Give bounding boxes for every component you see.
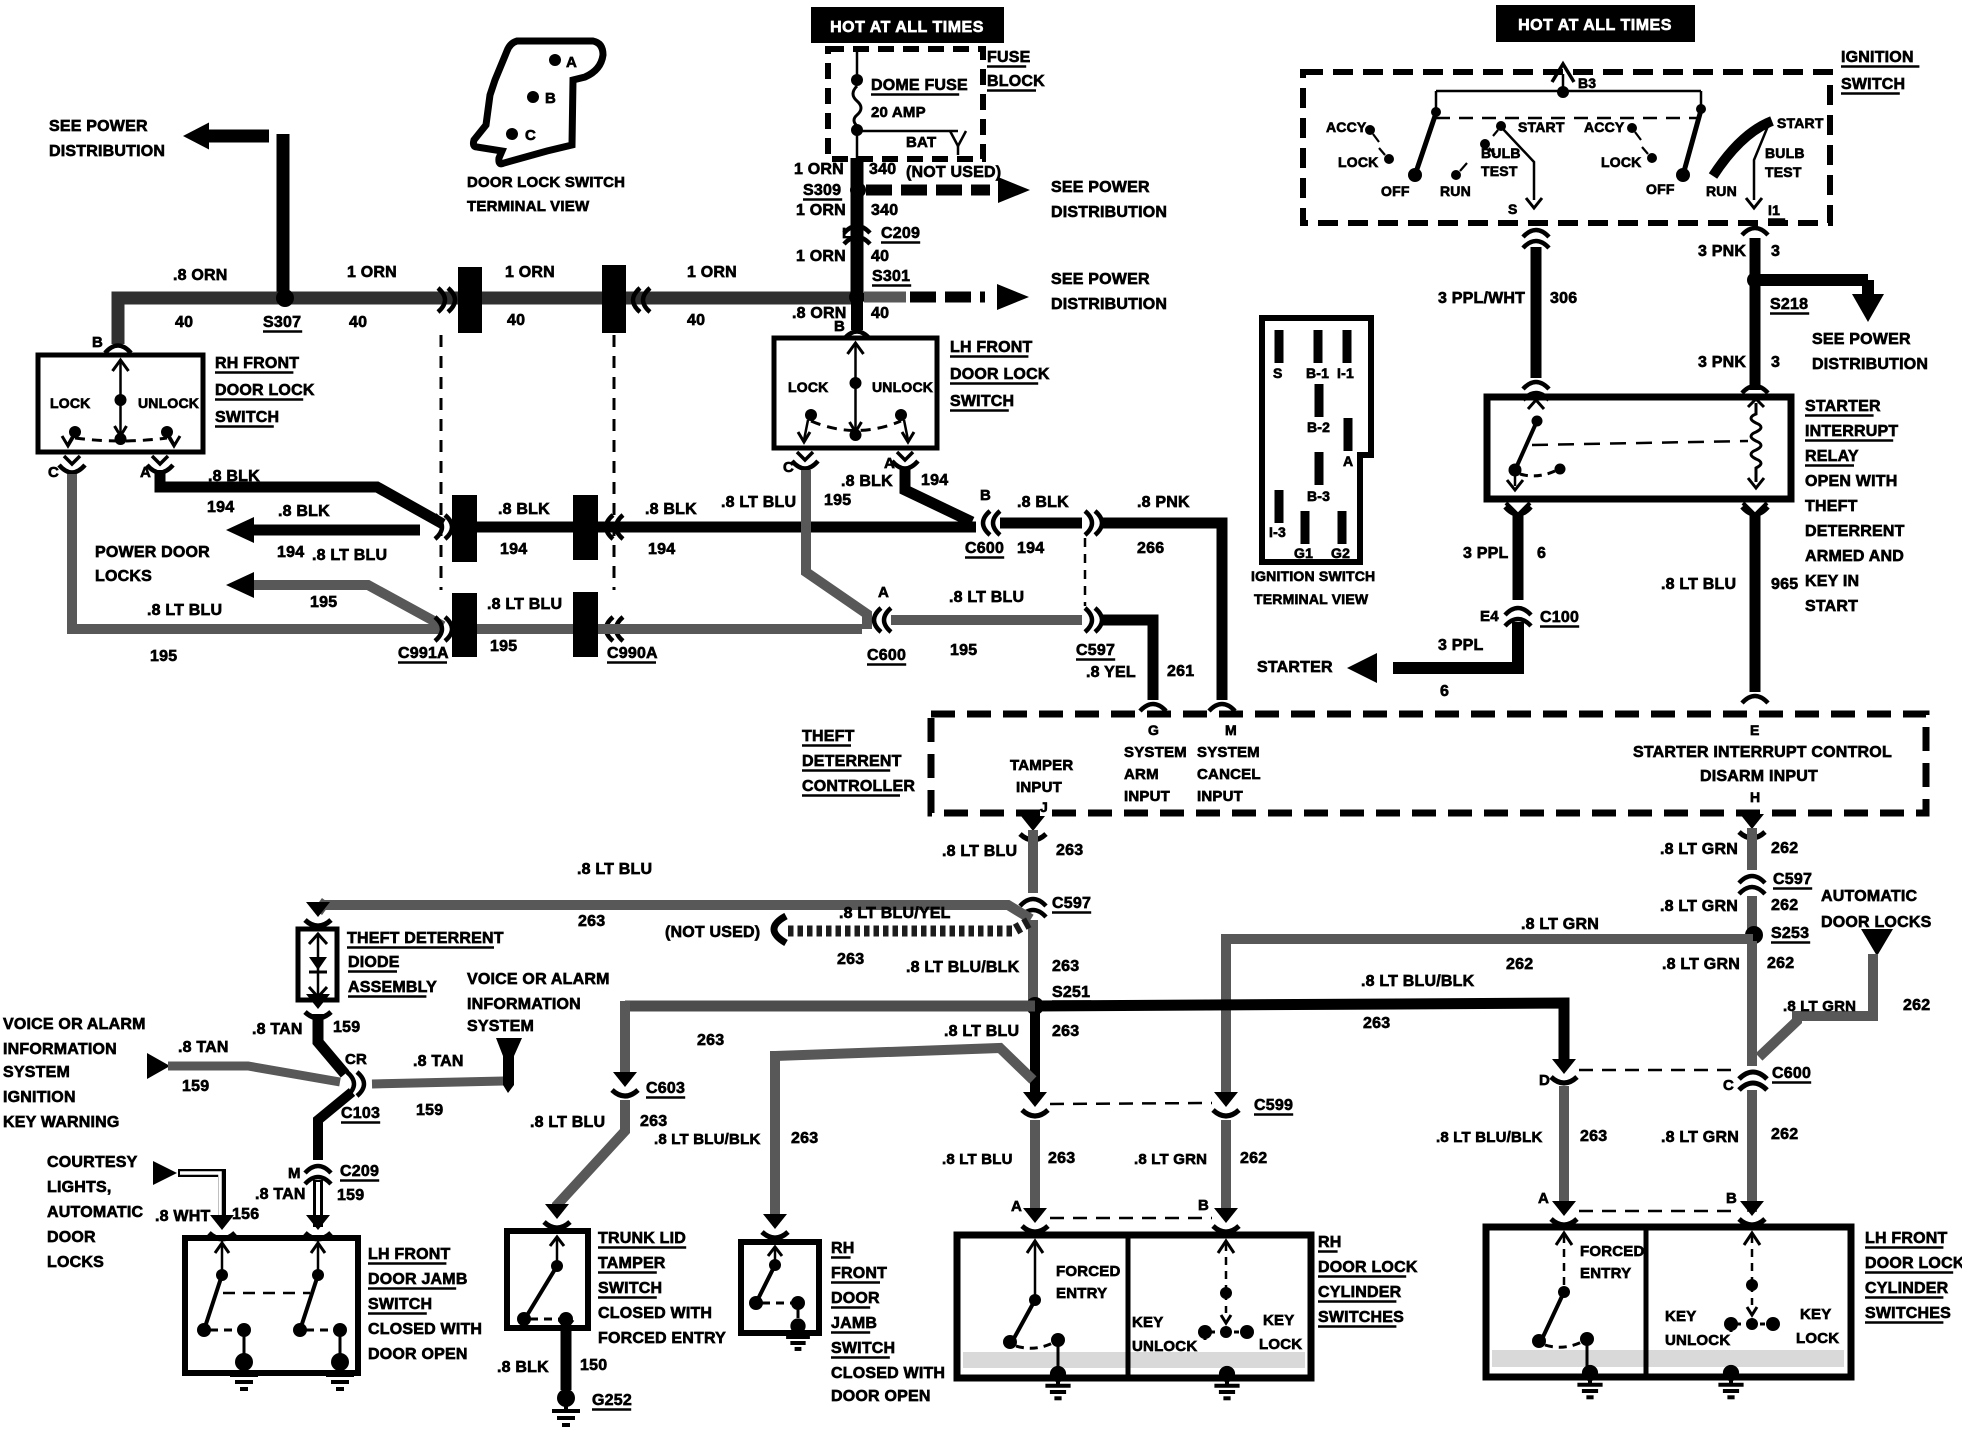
svg-text:DOOR JAMB: DOOR JAMB [368,1271,468,1288]
svg-text:DOOR LOCK: DOOR LOCK [1865,1255,1962,1272]
wire 3 PNK 3 (I1 to relay) [1750,238,1761,390]
svg-text:G2: G2 [1331,545,1350,561]
connector C209 (M) [288,1163,379,1184]
label 159 (right) [416,1102,443,1119]
HOT AT ALL TIMES banner (ignition) [1496,5,1695,42]
connector C600 pin A (.8 LT BLU) [867,584,906,665]
svg-text:194: 194 [921,472,948,489]
svg-text:.8 LT BLU: .8 LT BLU [949,589,1024,606]
svg-text:.8 LT BLU/BLK: .8 LT BLU/BLK [654,1131,760,1148]
svg-text:263: 263 [1052,1023,1079,1040]
svg-text:40: 40 [349,314,367,331]
label .8 LT GRN (branch) [1521,916,1599,933]
svg-text:.8 YEL: .8 YEL [1086,664,1136,681]
pin B connector (LH front door lock switch) [834,318,870,339]
svg-text:A: A [878,584,889,601]
pin B (LH cylinder) [1726,1190,1765,1225]
RH cylinder key lock pole [1198,1241,1254,1340]
svg-text:266: 266 [1137,540,1164,557]
label 1 ORN (right of S307) [347,264,397,281]
label .8 LT GRN (S253-C600) [1662,956,1740,973]
svg-text:3: 3 [1771,243,1780,260]
label DOOR LOCK SWITCH / TERMINAL VIEW [467,174,625,215]
label 262 (branch) [1506,956,1533,973]
svg-text:195: 195 [150,648,177,665]
svg-text:THEFT: THEFT [1805,498,1858,515]
label 40 (right of C990A) [687,312,705,329]
label 1 ORN (right of C990A) [687,264,737,281]
svg-text:40: 40 [507,312,525,329]
svg-text:JAMB: JAMB [831,1315,877,1332]
svg-text:3 PPL: 3 PPL [1438,637,1483,654]
svg-text:A: A [566,54,577,71]
splice S251 [1026,984,1091,1015]
label .8 LT GRN (C599) [1134,1151,1207,1168]
label IGNITION SWITCH TERMINAL VIEW [1251,568,1375,607]
svg-text:SWITCHES: SWITCHES [1865,1305,1951,1322]
relay starter interrupt (box) [1487,397,1791,499]
label 194 (right of C990A row2) [648,541,675,558]
svg-text:B: B [980,487,991,504]
svg-text:261: 261 [1167,663,1194,680]
wire 263 (elbow to C603) [620,1001,630,1080]
svg-text:156: 156 [232,1206,259,1223]
svg-text:B: B [1726,1190,1737,1207]
label SEE POWER DISTRIBUTION (S218) [1812,331,1928,373]
wire .8 TAN 159 (CR to voice alarm right) [372,1081,504,1084]
label 195 (below arrow) [310,594,337,611]
wire .8 WHT 156 (courtesy to LH jamb, open style) [178,1173,222,1225]
label POWER DOOR LOCKS [95,544,210,585]
svg-text:DOOR OPEN: DOOR OPEN [368,1346,468,1363]
pin D connector [1539,1059,1577,1089]
connector (ignition S) [1523,230,1549,248]
svg-text:INPUT: INPUT [1197,788,1243,805]
pin J connector (below controller) [1020,816,1046,840]
svg-text:C600: C600 [965,540,1004,557]
pin H connector (below controller) [1739,814,1765,838]
label .8 YEL [1086,664,1136,681]
svg-text:40: 40 [175,314,193,331]
label KEY UNLOCK (LH) [1665,1308,1730,1349]
label IGNITION SWITCH [1841,49,1919,94]
label .8 LT BLU (C wire) [147,602,222,619]
svg-text:LOCKS: LOCKS [47,1254,104,1271]
svg-text:SEE POWER: SEE POWER [1051,271,1150,288]
svg-text:263: 263 [791,1130,818,1147]
door lock switch terminal view outline [473,41,603,164]
label G SYSTEM ARM INPUT [1124,722,1187,805]
theft deterrent controller dashed box [931,714,1926,813]
label 195 (between blocks row3) [490,638,517,655]
svg-text:VOICE OR ALARM: VOICE OR ALARM [3,1016,146,1033]
label COURTESY LIGHTS AUTOMATIC DOOR LOCKS [47,1154,144,1271]
HOT AT ALL TIMES banner (fuse block) [811,7,1004,43]
label 262 (above S253) [1771,897,1798,914]
riser left (ignition) [1431,91,1441,117]
svg-text:(NOT USED): (NOT USED) [906,164,1001,181]
label 262 (C-B) [1771,1126,1798,1143]
label .8 LT BLU/BLK (D-A) [1436,1129,1542,1146]
svg-text:263: 263 [1056,842,1083,859]
label LH FRONT DOOR LOCK SWITCH [950,339,1050,411]
label C991A [398,645,449,663]
svg-text:BULB: BULB [1765,145,1805,161]
dashed line A to B (LH cylinder) [1579,1210,1736,1213]
svg-text:.8 LT BLU: .8 LT BLU [942,843,1017,860]
label 40 (left of S307) [175,314,193,331]
svg-text:CANCEL: CANCEL [1197,766,1261,783]
scan noise band (LH cylinder box) [1492,1350,1844,1367]
svg-text:.8 TAN: .8 TAN [413,1053,464,1070]
wire .8 YEL 261 (C597 to controller G) [1100,620,1153,700]
wire .8 BLK between C991A and C990A [477,522,573,533]
svg-text:S253: S253 [1771,925,1809,942]
svg-text:.8 BLK: .8 BLK [1017,494,1069,511]
arrow (courtesy lights) [153,1161,177,1185]
wire .8 LT BLU 263 (theft diode to C597) [322,905,1031,919]
label 3 (upper) [1771,243,1780,260]
switch RH front door jamb switch (box) [741,1242,819,1333]
svg-text:195: 195 [950,642,977,659]
label UNLOCK (LH switch) [872,379,933,395]
svg-text:TEST: TEST [1765,164,1802,180]
svg-text:A: A [1538,1190,1549,1207]
svg-text:(NOT USED): (NOT USED) [665,924,760,941]
svg-text:TAMPER: TAMPER [1010,757,1073,774]
svg-text:SWITCH: SWITCH [950,393,1014,410]
label 262 (auto door locks wire) [1903,997,1930,1014]
wire .8 BLK (LH switch A to C600) [905,468,972,522]
svg-text:262: 262 [1771,1126,1798,1143]
connector C599 [1213,1092,1293,1116]
label RH FRONT DOOR JAMB SWITCH CLOSED WITH DOOR OPEN [831,1240,945,1405]
svg-text:3 PNK: 3 PNK [1698,354,1746,371]
svg-text:.8 LT GRN: .8 LT GRN [1134,1151,1207,1168]
terminal I-3 (ignition view) [1269,490,1286,540]
svg-text:INFORMATION: INFORMATION [467,996,581,1013]
connector (below diode assembly) [305,994,331,1018]
dashed power feed arrow (S309 to power distribution) [866,177,1030,203]
wire .8 ORN 40 / 1 ORN 40 main feed (RH switch B to S301) [118,298,853,344]
svg-text:BLOCK: BLOCK [987,73,1045,90]
wire .8 LT BLU between blocks row3 [477,624,573,634]
svg-text:A: A [1011,1198,1022,1215]
label LH FRONT DOOR JAMB SWITCH CLOSED WITH DOOR OPEN [368,1246,482,1363]
dashed line to C599 [1050,1103,1212,1104]
svg-text:1 ORN: 1 ORN [794,161,844,178]
svg-text:263: 263 [640,1113,667,1130]
wire .8 LT BLU/BLK (D to LH cylinder A) [1559,1086,1569,1210]
svg-text:C600: C600 [1772,1065,1811,1082]
svg-text:S: S [1508,201,1518,217]
connector (LH jamb top right pin) [305,1215,331,1239]
connector C597 (.8 YEL side) [1076,608,1115,660]
svg-text:STARTER INTERRUPT CONTROL: STARTER INTERRUPT CONTROL [1633,744,1892,761]
svg-text:RUN: RUN [1706,183,1737,199]
label LOCK (RH switch) [50,395,90,411]
svg-text:B: B [834,318,845,335]
label .8 LT BLU (LH C wire) [721,494,796,511]
label 194 (right of C600) [1017,540,1044,557]
svg-text:D: D [1539,1072,1550,1089]
svg-text:.8 LT BLU/YEL: .8 LT BLU/YEL [839,905,951,922]
svg-text:ACCY: ACCY [1326,119,1367,135]
arrow (voice or alarm down) [496,1038,522,1093]
arrow .8 LT BLU 195 to power door locks [226,572,443,626]
label FORCED ENTRY (RH) [1056,1263,1121,1302]
label .8 LT BLU/BLK (jamb branch) [654,1131,760,1148]
svg-text:C991A: C991A [398,645,449,662]
switch LH front door lock switch (box) [774,338,937,448]
label 263 (long 263) [578,913,605,930]
svg-text:SEE POWER: SEE POWER [1051,179,1150,196]
svg-text:965: 965 [1771,576,1798,593]
terminal I-1 (ignition view) [1337,330,1354,381]
svg-text:IGNITION: IGNITION [1841,49,1914,66]
svg-text:OFF: OFF [1381,183,1410,199]
label .8 LT GRN (auto door locks wire) [1783,998,1856,1015]
pin A (LH cylinder) [1538,1190,1577,1225]
svg-text:C597: C597 [1773,871,1812,888]
svg-text:194: 194 [1017,540,1044,557]
label THEFT DETERRENT CONTROLLER [802,728,915,796]
svg-text:H: H [1750,789,1760,805]
svg-text:S301: S301 [872,268,910,285]
svg-text:S307: S307 [263,314,301,331]
svg-text:.8 LT BLU/BLK: .8 LT BLU/BLK [1436,1129,1542,1146]
power feed arrow (S301 to power distribution) [864,284,1029,310]
svg-text:DISTRIBUTION: DISTRIBUTION [1051,204,1167,221]
svg-text:.8 BLK: .8 BLK [208,468,260,485]
riser right (ignition) [1696,91,1706,114]
svg-text:DISTRIBUTION: DISTRIBUTION [1812,356,1928,373]
svg-text:TEST: TEST [1481,163,1518,179]
label STARTER [1257,659,1333,676]
svg-text:262: 262 [1903,997,1930,1014]
svg-text:IGNITION SWITCH: IGNITION SWITCH [1251,568,1375,584]
label 1 ORN (above S309) [794,161,844,178]
label RH FRONT DOOR LOCK SWITCH [215,355,315,427]
svg-text:ASSEMBLY: ASSEMBLY [348,979,437,996]
label M SYSTEM CANCEL INPUT [1197,722,1261,805]
ground (RH cylinder left) [1045,1366,1070,1398]
wire .8 LT BLU (C990A to C600 A) [598,624,862,634]
label 262 (C599) [1240,1150,1267,1167]
wire .8 BLK 150 (trunk switch to G252) [561,1328,572,1390]
svg-text:.8 BLK: .8 BLK [278,503,330,520]
svg-text:FORCED: FORCED [1056,1263,1121,1280]
svg-text:E: E [1750,722,1760,738]
svg-text:C209: C209 [881,225,920,242]
connector block C990A upper (1 ORN row) [602,265,650,333]
svg-text:RH FRONT: RH FRONT [215,355,299,372]
svg-text:START: START [1518,119,1565,135]
wire .8 TAN 159 (voice alarm to CR) [168,1066,340,1082]
wire .8 BLK (C990A to C600) [598,522,976,533]
svg-text:G1: G1 [1294,545,1313,561]
svg-text:B3: B3 [1578,75,1596,91]
pin C connector (LH switch) [783,452,818,476]
wire .8 LT BLU (C600 A to C597) [891,615,1082,625]
svg-text:.8 LT GRN: .8 LT GRN [1660,898,1738,915]
svg-text:263: 263 [1363,1015,1390,1032]
arrow (not used) [774,916,786,943]
connector (relay bottom left) [1505,503,1531,515]
svg-text:RH: RH [1318,1234,1342,1251]
label 40 (above S301) [871,248,889,265]
svg-text:FORCED: FORCED [1580,1243,1645,1260]
svg-text:DOOR LOCK: DOOR LOCK [215,382,315,399]
svg-text:.8 LT BLU: .8 LT BLU [944,1023,1019,1040]
label THEFT DETERRENT DIODE ASSEMBLY [347,930,504,997]
svg-text:S251: S251 [1052,984,1090,1001]
svg-text:.8 LT BLU: .8 LT BLU [147,602,222,619]
svg-text:OFF: OFF [1646,181,1675,197]
svg-text:C103: C103 [341,1105,380,1122]
svg-text:SYSTEM: SYSTEM [467,1018,534,1035]
svg-text:194: 194 [500,541,527,558]
label .8 TAN (C209) [255,1186,306,1203]
label LOCK (LH switch) [788,379,828,395]
pin B (RH switch) [92,334,131,353]
svg-text:LH FRONT: LH FRONT [1865,1230,1948,1247]
ground G252 [552,1389,632,1425]
label 195 (C600-C597) [950,642,977,659]
label 263 (right) [1363,1015,1390,1032]
svg-text:194: 194 [207,499,234,516]
svg-text:INPUT: INPUT [1124,788,1170,805]
svg-text:CYLINDER: CYLINDER [1865,1280,1949,1297]
connector C603 [612,1072,685,1098]
connector C597 (H wire) [1739,871,1812,894]
wire .8 LT BLU (C597 to S251) [1028,920,1038,1006]
svg-text:.8 BLK: .8 BLK [498,501,550,518]
wire .8 LT BLU 263 (C603 to trunk switch) [557,1100,625,1212]
svg-text:TAMPER: TAMPER [598,1255,666,1272]
right ignition lever [1683,110,1701,175]
label 1 ORN (above S301) [796,248,846,265]
svg-text:LOCK: LOCK [1338,154,1378,170]
ground (LH cylinder left) [1577,1365,1602,1397]
svg-text:DETERRENT: DETERRENT [1805,523,1905,540]
connector C103 [341,1072,380,1123]
terminal G1 (ignition view) [1294,511,1313,561]
svg-text:KEY: KEY [1800,1306,1831,1323]
label .8 LT BLU (lower) [942,1151,1013,1168]
label .8 LT GRN (H wire) [1660,841,1738,858]
connector (above diode assembly) [305,902,331,926]
svg-text:C599: C599 [1254,1097,1293,1114]
label 262 (S253-C600) [1767,955,1794,972]
svg-text:M: M [1225,722,1237,738]
dashed line D to C [1579,1069,1736,1072]
connector block C990A middle (.8 BLK row) [573,495,623,560]
connector C597 (.8 PNK side) [1085,511,1102,535]
ground (LH jamb 2) [326,1353,354,1389]
svg-text:UNLOCK: UNLOCK [138,395,199,411]
wire .8 LT BLU/BLK 263 (S251 to D elbow) [625,1003,1564,1064]
svg-text:3 PNK: 3 PNK [1698,243,1746,260]
svg-text:262: 262 [1771,897,1798,914]
svg-text:G252: G252 [592,1392,632,1409]
svg-text:COURTESY: COURTESY [47,1154,138,1171]
arrow (voice or alarm input) [147,1053,170,1079]
svg-text:LOCK: LOCK [50,395,90,411]
svg-text:KEY: KEY [1665,1308,1696,1325]
svg-text:STARTER: STARTER [1257,659,1333,676]
label .8 PNK [1137,494,1190,511]
label 194 / .8 LT BLU (second row) [277,544,387,564]
svg-text:262: 262 [1240,1150,1267,1167]
svg-text:LOCK: LOCK [1796,1330,1839,1347]
svg-text:SYSTEM: SYSTEM [3,1064,70,1081]
svg-text:DOOR OPEN: DOOR OPEN [831,1388,931,1405]
label UNLOCK (RH switch) [138,395,199,411]
label 263 (J wire) [1056,842,1083,859]
svg-text:POWER DOOR: POWER DOOR [95,544,210,561]
dashed line A to B (RH cylinder) [1050,1217,1212,1220]
label 262 (H wire) [1771,840,1798,857]
svg-text:.8 LT GRN: .8 LT GRN [1662,956,1740,973]
svg-text:VOICE OR ALARM: VOICE OR ALARM [467,971,610,988]
connector (RH jamb top) [762,1214,788,1238]
svg-text:I-3: I-3 [1269,524,1286,540]
ground (RH cylinder right) [1214,1366,1239,1398]
svg-text:OPEN WITH: OPEN WITH [1805,473,1897,490]
svg-text:HOT AT ALL TIMES: HOT AT ALL TIMES [1518,17,1672,34]
label 266 [1137,540,1164,557]
svg-text:DOOR LOCKS: DOOR LOCKS [1821,914,1932,931]
label TAMPER INPUT J [1010,757,1073,815]
svg-text:SWITCH: SWITCH [368,1296,432,1313]
svg-text:159: 159 [416,1102,443,1119]
svg-text:194: 194 [277,544,304,561]
label 6 (lower) [1440,683,1449,700]
svg-text:DIODE: DIODE [348,954,400,971]
pin B (RH cylinder) [1198,1197,1239,1232]
terminal A (door lock switch view) [549,54,577,71]
label .8 BLK (right of C990A row2) [645,501,697,518]
wire .8 TAN 159 (diode to CR) [318,1014,345,1074]
svg-text:40: 40 [871,248,889,265]
pin A connector (RH switch) [140,456,173,481]
wire .8 LT BLU 195 (RH switch C to C991A) [72,474,443,629]
label 195 (C wire) [150,648,177,665]
terminal S (ignition view) [1273,330,1284,381]
wire to I1 output [1746,126,1768,208]
svg-text:.8 LT GRN: .8 LT GRN [1661,1129,1739,1146]
svg-text:40: 40 [687,312,705,329]
wire .8 LT GRN 262 (from automatic door locks) [1759,954,1873,1057]
svg-text:.8 TAN: .8 TAN [252,1021,303,1038]
svg-text:B: B [1198,1197,1209,1214]
svg-text:LOCK: LOCK [1601,154,1641,170]
svg-text:.8 BLK: .8 BLK [497,1359,549,1376]
label VOICE OR ALARM INFORMATION SYSTEM (right) [467,971,610,1035]
svg-text:.8 LT GRN: .8 LT GRN [1660,841,1738,858]
switch RH front door lock switch (box) [38,355,203,452]
svg-text:B-3: B-3 [1307,488,1330,504]
dashed link line (ignition switch) [1436,117,1700,120]
svg-text:B-2: B-2 [1307,419,1330,435]
svg-text:340: 340 [871,202,898,219]
label .8 TAN (diode wire) [252,1021,303,1038]
svg-text:E4: E4 [1480,608,1499,625]
svg-text:DISTRIBUTION: DISTRIBUTION [49,143,165,160]
connector (relay top left) [1523,382,1549,400]
wire .8 LT BLU/YEL hatched (C597 to not-used) [788,921,1031,931]
